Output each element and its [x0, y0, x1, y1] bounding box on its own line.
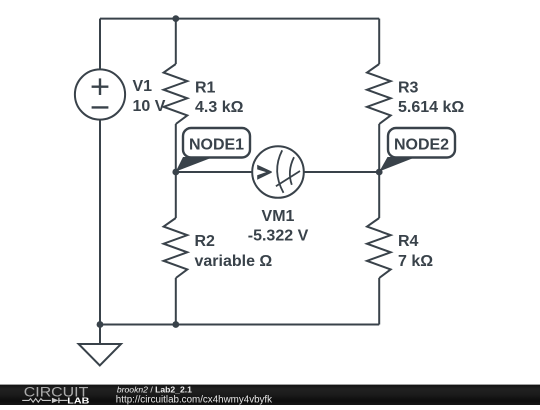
resistor R3 [367, 64, 391, 124]
footer text [100, 384, 540, 405]
svg-text:R3: R3 [398, 80, 419, 97]
label VM1 [248, 208, 309, 245]
label R4 [398, 233, 433, 270]
svg-text:-5.322 V: -5.322 V [248, 228, 309, 245]
wire left vertical lower [99, 120, 101, 344]
junction dot node1 [172, 169, 179, 176]
resistor R1 [164, 64, 188, 124]
svg-text:brookn2 / Lab2_2.1: brookn2 / Lab2_2.1 [117, 385, 192, 395]
junction dot bottom middle [172, 321, 179, 328]
CircuitLab logo [0, 384, 110, 405]
wire bottom horizontal [100, 324, 379, 326]
svg-text:NODE2: NODE2 [394, 137, 449, 154]
svg-text:4.3 kΩ: 4.3 kΩ [195, 99, 244, 116]
wire middle vertical upper [175, 19, 177, 64]
svg-text:5.614 kΩ: 5.614 kΩ [398, 99, 464, 116]
voltage source V1 [75, 69, 125, 119]
ground [79, 325, 121, 366]
wire right vertical lower [378, 278, 380, 325]
svg-text:variable Ω: variable Ω [195, 253, 273, 270]
svg-text:LAB: LAB [67, 396, 89, 405]
wire right vertical upper [378, 19, 380, 64]
wire middle vertical lower [175, 278, 177, 325]
svg-text:7 kΩ: 7 kΩ [398, 253, 433, 270]
svg-text:10 V: 10 V [133, 98, 166, 115]
label R2 [195, 233, 273, 270]
svg-text:R4: R4 [398, 233, 419, 250]
junction dot top [172, 15, 179, 22]
footer bar [0, 384, 540, 405]
svg-text:R1: R1 [195, 80, 216, 97]
junction dot bottom left [97, 321, 104, 328]
svg-text:NODE1: NODE1 [189, 137, 244, 154]
svg-text:V1: V1 [133, 78, 153, 95]
svg-text:VM1: VM1 [262, 208, 295, 225]
wire right vertical mid [378, 124, 380, 218]
svg-text:R2: R2 [195, 233, 216, 250]
svg-text:http://circuitlab.com/cx4hwmy4: http://circuitlab.com/cx4hwmy4vbyfk [116, 395, 272, 405]
junction dot node2 [376, 169, 383, 176]
label V1 [133, 78, 166, 115]
voltmeter VM1 [252, 146, 304, 198]
wire top horizontal [100, 18, 379, 20]
wire left vertical upper [99, 19, 101, 70]
wire node1 to voltmeter [176, 171, 252, 173]
resistor R2 [164, 218, 188, 278]
resistor R4 [367, 218, 391, 278]
label R1 [195, 80, 244, 117]
node NODE2 callout [379, 128, 455, 171]
node NODE1 callout [176, 128, 250, 172]
label R3 [398, 80, 464, 117]
wire middle vertical mid [175, 124, 177, 218]
wire voltmeter to node2 [304, 171, 379, 173]
